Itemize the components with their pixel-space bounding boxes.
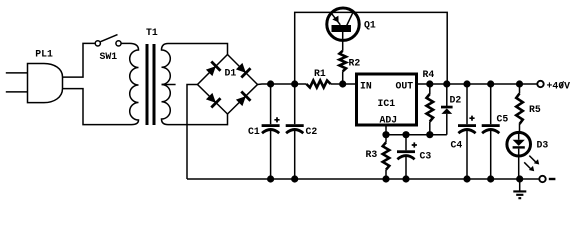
svg-text:C2: C2 xyxy=(306,126,318,137)
transformer T1 secondary center tap stub xyxy=(163,84,176,86)
svg-text:D1: D1 xyxy=(225,68,237,79)
capacitor C1 xyxy=(270,84,272,124)
svg-text:C3: C3 xyxy=(420,150,432,161)
svg-text:D2: D2 xyxy=(450,94,462,105)
capacitor C3 xyxy=(405,135,407,151)
bridge diode bottom-left (arrow toward bottom) xyxy=(206,93,216,103)
bridge diode top-left (arrow toward top) xyxy=(206,66,216,76)
switch SW1 contact left xyxy=(95,41,100,46)
bypass wire left leg (C2 node up) xyxy=(295,12,448,84)
resistor R4 xyxy=(429,84,431,94)
svg-text:R3: R3 xyxy=(366,149,378,160)
diode D2 xyxy=(446,84,448,106)
bridge diode bottom-right (arrow toward right) xyxy=(236,96,246,106)
wire IC1 ADJ pin xyxy=(385,126,387,135)
output terminal minus xyxy=(539,176,545,182)
svg-text:IC1: IC1 xyxy=(378,98,396,109)
transformer T1 core bar left xyxy=(146,44,149,125)
plus mark xyxy=(469,116,474,121)
svg-text:ADJ: ADJ xyxy=(380,114,398,125)
junction dots top rail xyxy=(267,80,274,87)
transformer T1 secondary winding upper xyxy=(162,44,171,85)
transformer T1 secondary winding lower xyxy=(162,85,171,125)
svg-text:IN: IN xyxy=(360,80,372,91)
svg-text:PL1: PL1 xyxy=(35,49,53,60)
svg-text:D3: D3 xyxy=(537,140,549,151)
junction dots ground rail xyxy=(267,175,274,182)
wire secondary top to bridge xyxy=(168,44,228,55)
LED D3 diode triangle xyxy=(513,140,525,146)
slash of zero in +40V xyxy=(560,81,563,87)
resistor R1 xyxy=(306,81,330,88)
transistor Q1 body circle xyxy=(327,8,359,40)
bridge rectifier D1 diamond xyxy=(198,55,258,115)
ADJ node wire xyxy=(386,134,447,136)
transformer T1 core bar right xyxy=(153,44,156,125)
wire R2 to rail xyxy=(342,71,344,84)
transistor Q1 emitter lead with arrow xyxy=(331,13,340,25)
svg-text:R5: R5 xyxy=(529,104,541,115)
plug PL1 prong top xyxy=(6,72,28,74)
junction dots ADJ node xyxy=(382,131,389,138)
capacitor C5 xyxy=(490,84,492,124)
transistor Q1 base bar xyxy=(332,25,352,32)
wire plug cord bottom to transformer primary bottom xyxy=(63,89,132,125)
plug PL1 prong bottom xyxy=(6,91,28,93)
resistor R5 xyxy=(519,84,521,94)
switch SW1 contact right xyxy=(116,41,121,46)
svg-text:SW1: SW1 xyxy=(100,51,118,62)
transistor Q1 collector lead xyxy=(347,13,353,26)
svg-text:C4: C4 xyxy=(451,139,463,150)
resistor R3 xyxy=(385,135,387,143)
transistor Q1 base lead to R2 xyxy=(342,32,344,51)
svg-text:Q1: Q1 xyxy=(364,19,376,30)
svg-text:+40V: +40V xyxy=(547,80,571,91)
svg-text:OUT: OUT xyxy=(396,80,414,91)
LED D3 circle xyxy=(507,132,531,156)
capacitor C4 xyxy=(466,84,468,124)
wire plug cord top to switch xyxy=(63,43,96,77)
wire switch to transformer primary top xyxy=(121,42,129,44)
output terminal +40V xyxy=(537,81,543,87)
ground rail (bottom) xyxy=(187,178,539,180)
LED D3 light arrow 1 xyxy=(529,156,535,162)
svg-text:T1: T1 xyxy=(146,27,158,38)
wire bridge left corner to ground rail xyxy=(187,85,198,180)
resistor R2 xyxy=(339,51,346,72)
wire secondary bottom to bridge xyxy=(168,114,228,125)
bridge diode top-right (arrow toward right) xyxy=(236,63,246,73)
LED D3 cathode bar xyxy=(513,146,525,148)
plus mark xyxy=(274,117,279,122)
svg-text:C5: C5 xyxy=(497,113,509,124)
wire bridge right corner along main rail to IC1 IN xyxy=(258,83,357,86)
switch SW1 lever xyxy=(101,35,118,42)
svg-text:R2: R2 xyxy=(349,57,361,68)
svg-text:C1: C1 xyxy=(248,126,260,137)
plus mark xyxy=(412,142,417,147)
wire OUT rail xyxy=(417,83,538,85)
transformer T1 primary winding xyxy=(130,43,139,124)
capacitor C2 xyxy=(294,84,296,124)
LED D3 light arrow 2 xyxy=(524,162,530,168)
plug PL1 body xyxy=(28,64,63,103)
LED D3 internal wires xyxy=(518,133,520,179)
svg-text:R1: R1 xyxy=(314,68,326,79)
ground symbol xyxy=(519,179,521,191)
svg-text:R4: R4 xyxy=(423,69,435,80)
regulator IC1 box xyxy=(357,74,417,125)
